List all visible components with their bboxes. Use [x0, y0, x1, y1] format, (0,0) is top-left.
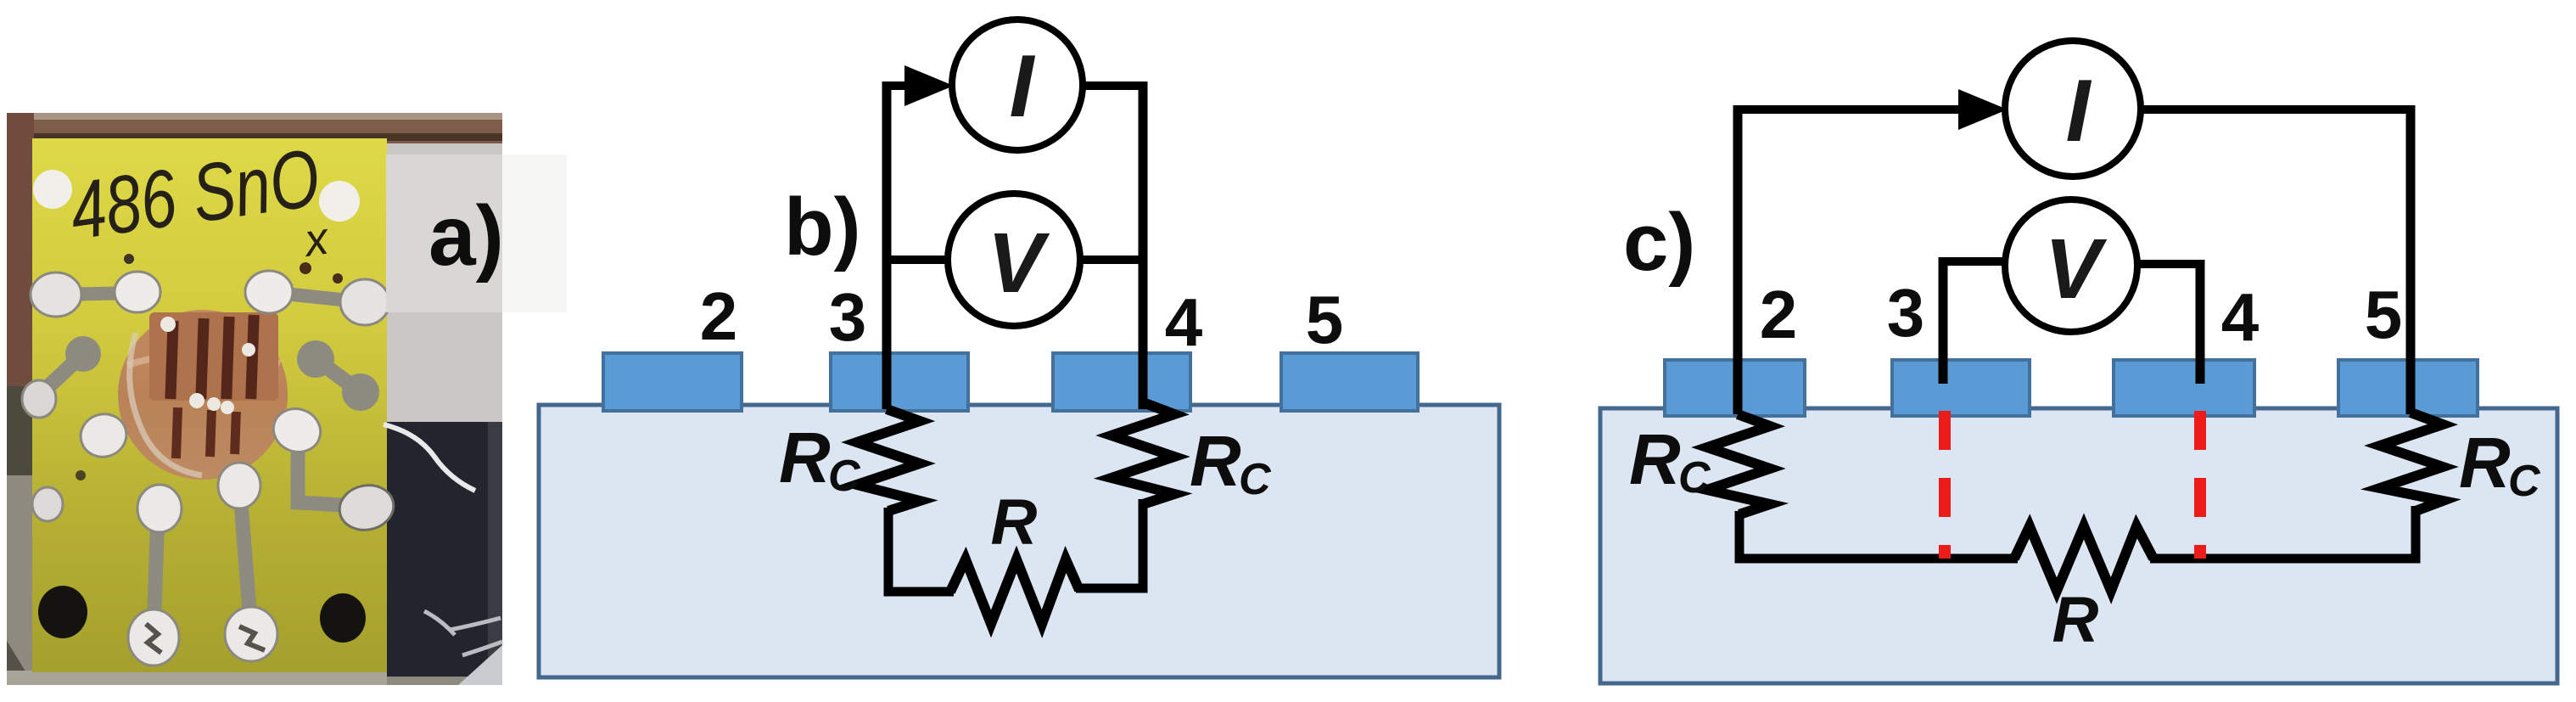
svg-text:R: R — [991, 486, 1038, 559]
svg-text:c): c) — [1623, 197, 1695, 288]
photo dark background right — [384, 422, 502, 677]
svg-text:2: 2 — [1760, 277, 1798, 352]
resistor Rc left (b) — [857, 409, 920, 511]
sensor solder dots — [160, 317, 176, 332]
mounting hole top-left — [33, 170, 72, 209]
wire: left vertical from pad 3 to ammeter level — [882, 81, 892, 409]
contact pad 3 (b) — [831, 353, 968, 411]
svg-text:5: 5 — [2365, 277, 2403, 352]
ammeter I (b) — [952, 20, 1083, 150]
wire: voltmeter right lead — [2135, 260, 2204, 268]
svg-text:C: C — [828, 452, 861, 501]
svg-text:4: 4 — [2221, 279, 2260, 355]
contact pad 2 (b) — [603, 353, 742, 411]
wire: top rail to arrow — [1733, 105, 1973, 114]
svg-text:3: 3 — [829, 279, 867, 355]
svg-text:a): a) — [428, 188, 504, 284]
copper sensor disc — [118, 310, 288, 480]
PCB board — [32, 138, 387, 672]
contact pad 2 (c) — [1665, 360, 1805, 416]
sensor electrode bar 3 — [221, 317, 234, 399]
solder joint below sensor right — [218, 463, 260, 508]
wire: voltmeter left vertical to pad 3 — [1939, 257, 1948, 384]
resistor R (b) — [950, 559, 1079, 624]
substrate b — [539, 405, 1499, 677]
pcb trace top-left — [56, 293, 137, 295]
pcb trace left dumbbell — [65, 336, 101, 372]
pcb lead left vertical — [154, 511, 158, 635]
drill hole bottom-right — [320, 593, 366, 643]
svg-text:V: V — [2045, 222, 2108, 317]
wire: bottom right horizontal to right vertical — [1076, 499, 1143, 588]
solder joint top row 3 — [245, 271, 293, 313]
red dashed cut line under pad 3 — [1939, 411, 1951, 559]
solder joint left mid — [76, 409, 131, 462]
substrate c — [1600, 408, 2557, 683]
wire: right vertical from rail to pad 5 — [2406, 105, 2416, 414]
arrowhead — [1958, 89, 2008, 130]
solder joint top row 4 — [340, 279, 389, 325]
solder joint right edge big — [335, 480, 397, 535]
resistor Rc right (b) — [1112, 402, 1174, 504]
arrowhead — [904, 65, 954, 106]
red dashed cut line under pad 4 — [2194, 411, 2206, 559]
wire: below left Rc to bottom horizontal — [1739, 511, 2018, 559]
contact pad 4 (c) — [2114, 360, 2254, 416]
sensor lower bars — [171, 407, 182, 458]
solder joint bottom right — [225, 607, 277, 661]
figure label box — [386, 154, 502, 312]
scratches in dark area — [424, 611, 502, 655]
solder joint left lower — [32, 487, 63, 521]
wire: ammeter right to right vertical — [2138, 105, 2415, 114]
svg-text:C: C — [1239, 455, 1272, 504]
wire: voltmeter left lead — [887, 256, 950, 264]
ammeter I (c) — [2005, 41, 2141, 177]
pcb trace mid-right L — [298, 443, 356, 506]
solder joint mid right — [267, 402, 327, 458]
wire: voltmeter left lead — [1939, 257, 2008, 266]
contact pad 3 (c) — [1892, 360, 2030, 416]
solder joint below sensor left — [137, 485, 182, 532]
svg-text:R: R — [1629, 419, 1681, 499]
wire: bottom right horizontal to right vertical — [2150, 506, 2416, 559]
solder joint top row 2 — [115, 272, 160, 312]
resistor R (c) — [2014, 526, 2153, 591]
voltmeter V (c) — [2005, 199, 2137, 332]
frame bottom strip — [7, 671, 387, 685]
frame left brown strip — [7, 113, 34, 435]
contact pad 5 (b) — [1281, 353, 1418, 411]
photo frame background — [7, 113, 502, 685]
svg-text:R: R — [1190, 421, 1241, 501]
svg-text:3: 3 — [1887, 275, 1925, 351]
svg-text:5: 5 — [1306, 282, 1344, 357]
svg-text:4: 4 — [1165, 284, 1203, 360]
contact pad 4 (b) — [1053, 353, 1190, 411]
glass dome highlight — [130, 333, 202, 475]
pcb trace top-right — [269, 292, 365, 302]
pcb lead right vertical — [240, 492, 251, 632]
sensor electrode bar 2 — [195, 318, 209, 399]
svg-text:2: 2 — [700, 278, 738, 354]
photo right column light area — [384, 140, 502, 429]
frame top brown strip — [7, 113, 502, 143]
svg-text:b): b) — [784, 182, 861, 272]
wire: left vertical from pad 2 to ammeter rail — [1733, 105, 1743, 414]
photo bottom-right light corner — [458, 645, 502, 685]
svg-text:I: I — [2066, 62, 2092, 160]
contact pad 5 (c) — [2338, 360, 2478, 416]
svg-text:R: R — [2052, 584, 2099, 656]
mounting hole top-right — [319, 181, 360, 222]
svg-text:C: C — [2508, 457, 2541, 506]
svg-text:C: C — [1678, 453, 1711, 503]
svg-text:R: R — [779, 418, 831, 497]
sensor electrode bar 4 — [245, 315, 259, 399]
wire: voltmeter right vertical to pad 4 — [2196, 260, 2205, 384]
solder joint top row 1 — [31, 272, 81, 317]
wire: arrow feed into ammeter — [882, 81, 915, 90]
sensor electrode bar 1 — [165, 321, 178, 399]
svg-text:V: V — [988, 216, 1050, 311]
resistor Rc left (c) — [1707, 414, 1770, 514]
voltmeter V (b) — [948, 194, 1080, 326]
wire: right vertical from ammeter to pad 4 — [1139, 81, 1148, 409]
svg-text:I: I — [1010, 37, 1036, 136]
solder joint bottom left — [128, 609, 179, 665]
pcb trace right dumbbell — [297, 340, 334, 378]
resistor Rc right (c) — [2380, 413, 2443, 511]
wire: below left Rc to bottom horizontal — [888, 508, 954, 592]
white wire over dark area — [384, 424, 475, 491]
drill hole bottom-left — [38, 586, 87, 638]
wire: ammeter right to right vertical — [1079, 81, 1147, 90]
sensor face plate — [149, 312, 278, 401]
svg-text:R: R — [2459, 423, 2511, 503]
dark specks on pcb — [124, 254, 134, 264]
solder joint left edge — [22, 380, 56, 418]
wire: voltmeter right lead — [1078, 256, 1143, 264]
